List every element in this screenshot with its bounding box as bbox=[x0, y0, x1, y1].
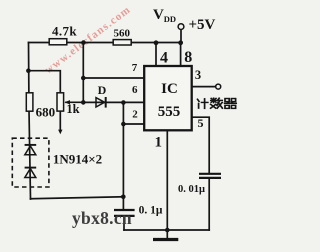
svg-text:3: 3 bbox=[195, 68, 201, 82]
svg-text:0. 1μ: 0. 1μ bbox=[139, 204, 163, 216]
svg-text:560: 560 bbox=[113, 28, 130, 40]
svg-text:DD: DD bbox=[164, 14, 176, 24]
svg-text:V: V bbox=[153, 7, 164, 23]
svg-text:1: 1 bbox=[154, 134, 162, 150]
svg-text:2: 2 bbox=[132, 108, 138, 120]
svg-text:7: 7 bbox=[132, 62, 138, 74]
svg-text:1N914×2: 1N914×2 bbox=[53, 152, 102, 167]
svg-text:0. 01μ: 0. 01μ bbox=[178, 184, 205, 195]
svg-text:555: 555 bbox=[158, 104, 181, 120]
svg-text:4.7k: 4.7k bbox=[52, 23, 77, 38]
svg-text:D: D bbox=[98, 83, 107, 97]
svg-text:4: 4 bbox=[160, 49, 168, 66]
svg-text:1k: 1k bbox=[66, 102, 79, 116]
svg-text:5: 5 bbox=[198, 116, 204, 130]
svg-text:IC: IC bbox=[161, 81, 178, 97]
svg-text:+5V: +5V bbox=[189, 17, 216, 33]
svg-text:680: 680 bbox=[36, 105, 56, 120]
svg-text:6: 6 bbox=[132, 84, 138, 96]
svg-text:8: 8 bbox=[184, 49, 192, 66]
svg-text:ybx8.cn: ybx8.cn bbox=[72, 208, 132, 228]
